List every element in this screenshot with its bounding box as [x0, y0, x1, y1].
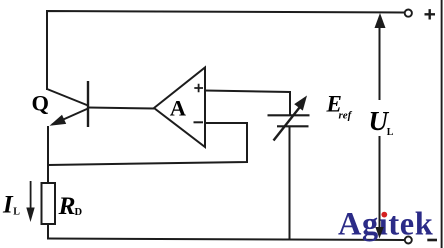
svg-text:L: L — [387, 127, 394, 138]
svg-text:A: A — [170, 95, 187, 120]
svg-text:ref: ref — [339, 110, 353, 122]
svg-text:I: I — [2, 192, 14, 219]
svg-text:Q: Q — [32, 91, 50, 116]
svg-text:L: L — [13, 207, 20, 218]
svg-text:Agıtek: Agıtek — [338, 207, 433, 243]
svg-text:D: D — [75, 207, 83, 218]
svg-text:R: R — [58, 191, 76, 220]
